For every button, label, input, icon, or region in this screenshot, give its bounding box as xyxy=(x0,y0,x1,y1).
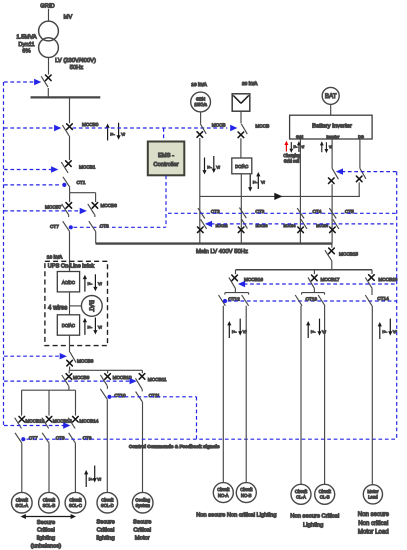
svg-text:BAT: BAT xyxy=(325,93,337,100)
CT9 blade (lighting) xyxy=(69,433,76,443)
svg-text:MCCB11: MCCB11 xyxy=(148,377,167,382)
CT13 right blade xyxy=(324,293,326,295)
power flow arrow xyxy=(274,193,282,200)
wire CT7 to UPS xyxy=(69,232,71,272)
control line to MCCB11 xyxy=(4,380,130,382)
svg-text:50Hz: 50Hz xyxy=(70,65,84,71)
CT7 current transformer xyxy=(63,221,70,231)
svg-text:SCL-B: SCL-B xyxy=(43,503,56,508)
svg-text:Circuit: Circuit xyxy=(69,497,82,502)
converter DC/AC xyxy=(57,315,79,335)
measurement I,Vf at busbar xyxy=(106,124,110,141)
circuit breaker Q0 (incomer) xyxy=(46,75,52,81)
svg-text:Motor: Motor xyxy=(135,535,150,541)
breaker MCCB13 xyxy=(46,416,52,422)
control line to MCCB1 xyxy=(4,169,52,171)
svg-text:Critical: Critical xyxy=(133,528,151,534)
svg-text:6%: 6% xyxy=(22,49,30,55)
svg-text:(unbalance): (unbalance) xyxy=(31,543,62,549)
svg-text:Battery Inverter: Battery Inverter xyxy=(312,123,352,129)
breaker MCCB3 xyxy=(241,219,247,229)
control line MCCB2-5 xyxy=(211,223,397,225)
control line to inverter breakers xyxy=(342,171,397,173)
breaker MCCB6 xyxy=(95,193,97,202)
breaker MCCB9 xyxy=(68,370,70,373)
svg-text:System: System xyxy=(136,503,151,508)
svg-text:I+-: I+- xyxy=(253,180,258,185)
wire PV to breaker xyxy=(240,111,242,123)
measurement I,Vf PV xyxy=(248,175,252,192)
circuit CL-B xyxy=(315,484,335,504)
svg-text:Non critical: Non critical xyxy=(358,520,388,527)
svg-text:Circuit: Circuit xyxy=(217,487,230,492)
wire to circuit NC-A xyxy=(222,306,224,483)
svg-text:Secure: Secure xyxy=(96,520,114,526)
measurement I,Vf motor load xyxy=(378,322,382,339)
circuit SCL-B xyxy=(39,492,60,513)
svg-text:Motor: Motor xyxy=(367,489,379,494)
EMS controller drop from control line xyxy=(163,128,165,141)
svg-text:NC-A: NC-A xyxy=(218,493,229,498)
wire CT1 to split xyxy=(69,187,71,193)
CT14 current transformer xyxy=(365,295,372,306)
control feedback bus bottom xyxy=(27,438,397,440)
svg-text:AC/DC: AC/DC xyxy=(62,280,75,285)
svg-text:vf: vf xyxy=(329,145,332,149)
svg-text:Motor Load: Motor Load xyxy=(358,529,389,536)
svg-text:I+-: I+- xyxy=(110,131,115,136)
circuit SCL-D xyxy=(97,492,118,513)
measurement I,Vf GEN xyxy=(202,158,206,175)
breaker MCCB12 xyxy=(19,416,25,422)
svg-text:SCL-D: SCL-D xyxy=(101,503,114,508)
CT8 blade (lighting) xyxy=(42,433,49,443)
breaker MCCB (GEN) xyxy=(200,124,206,134)
svg-text:15KVa: 15KVa xyxy=(194,102,207,107)
measurement I,Vf non-critical lighting xyxy=(227,321,231,338)
generator GEN 15KVa xyxy=(191,92,211,112)
CT5 current transformer xyxy=(329,208,336,218)
wire CT10 to SCL-D circuit xyxy=(106,399,108,492)
circuit NC-B xyxy=(236,483,256,503)
wire CT9 to circuit SCL-C xyxy=(74,443,76,492)
svg-text:I+-: I+- xyxy=(88,324,93,329)
svg-text:BAT: BAT xyxy=(87,300,94,312)
transformer T1 (2-winding) xyxy=(39,21,59,41)
wire CT11 to cooling system xyxy=(142,402,144,492)
svg-text:MCCB3: MCCB3 xyxy=(256,224,268,228)
CT13 left blade xyxy=(301,293,303,295)
circuit CL-A xyxy=(291,484,311,504)
CT10 current transformer xyxy=(100,389,107,399)
svg-text:DC/AC: DC/AC xyxy=(235,164,248,169)
svg-text:GRID: GRID xyxy=(40,3,55,9)
svg-text:GEN: GEN xyxy=(196,97,205,102)
svg-text:MCCB17: MCCB17 xyxy=(321,277,340,282)
NC branch bus xyxy=(225,292,249,294)
circuit SCL-A xyxy=(11,492,32,513)
svg-text:I+-: I+- xyxy=(382,329,387,334)
svg-text:Secure: Secure xyxy=(37,520,55,526)
unbalance arrow xyxy=(25,516,72,518)
svg-text:Grid: Grid xyxy=(296,135,303,139)
svg-text:Non secure Non critical Lighti: Non secure Non critical Lighting xyxy=(196,513,276,519)
wire CT6 to main bus xyxy=(95,232,97,244)
battery inverter unit xyxy=(290,115,373,139)
wire CT7 to circuit SCL-A xyxy=(21,443,23,492)
wire BAT to battery inverter xyxy=(330,104,332,115)
svg-text:Controller: Controller xyxy=(153,162,178,168)
EMS controller xyxy=(148,142,185,176)
svg-text:Circuit: Circuit xyxy=(16,497,29,502)
svg-text:I+-: I+- xyxy=(89,476,94,481)
wire to motor load xyxy=(371,306,373,485)
svg-text:MCCB10: MCCB10 xyxy=(113,375,132,380)
svg-text:Main LV 400V 50Hz: Main LV 400V 50Hz xyxy=(196,249,248,255)
breaker MCCB (PV) xyxy=(241,124,247,134)
breaker MCCB17 xyxy=(313,270,315,274)
control line to MCCB8 xyxy=(4,355,61,357)
svg-text:UPS On-Line brick: UPS On-Line brick xyxy=(48,264,95,270)
control line to CT1 xyxy=(4,184,61,186)
control line through MCCB7 to MCCB6 xyxy=(4,210,80,212)
breaker MCCB18 xyxy=(371,270,373,274)
measurement I,Vf secure lighting xyxy=(84,470,88,487)
svg-text:Dyn11: Dyn11 xyxy=(18,42,34,48)
svg-text:MCCB14: MCCB14 xyxy=(79,418,98,423)
breaker MCCB15 xyxy=(331,244,333,248)
measurement I,Vf critical lighting xyxy=(306,321,310,338)
svg-text:DC/AC: DC/AC xyxy=(62,323,75,328)
control line to MCCB16 xyxy=(244,283,397,285)
measurement I,Vf at DC/AC xyxy=(83,318,87,335)
control line CT12-CT14 xyxy=(228,300,397,302)
wire split bus xyxy=(70,192,96,194)
CL branch bus xyxy=(302,292,325,294)
svg-text:10 kVA: 10 kVA xyxy=(191,82,207,88)
svg-text:Load: Load xyxy=(368,495,378,500)
svg-text:I+-: I+- xyxy=(311,329,316,334)
breaker MCCB16 xyxy=(235,270,237,274)
breaker MCCB11 xyxy=(141,370,143,373)
svg-text:I+-: I+- xyxy=(207,164,212,169)
svg-text:Lighting: Lighting xyxy=(303,522,323,528)
wire drop SCL-C xyxy=(75,390,77,415)
svg-text:1.5MVA: 1.5MVA xyxy=(16,35,36,41)
breaker MCCB8 xyxy=(70,352,76,362)
svg-text:I+-: I+- xyxy=(232,329,237,334)
control line to incomer xyxy=(4,81,35,83)
control rail right xyxy=(396,172,398,440)
svg-text:MCCB12: MCCB12 xyxy=(25,418,44,423)
CT6 current transformer xyxy=(89,221,96,231)
battery BAT (UPS) xyxy=(81,296,102,317)
svg-text:Non secure: Non secure xyxy=(358,511,390,518)
cooling system load xyxy=(132,492,153,513)
circuit NC-A xyxy=(213,483,233,503)
non secure bus xyxy=(236,269,373,271)
wire MCCB8 to secure bus xyxy=(69,367,71,371)
measurement I,Vf at AC/DC xyxy=(83,275,87,292)
svg-text:MCCB16: MCCB16 xyxy=(244,277,263,282)
svg-text:CT13: CT13 xyxy=(306,296,318,301)
breaker MCCB4 xyxy=(301,219,307,229)
svg-text:MCCB2: MCCB2 xyxy=(216,224,228,228)
svg-text:Circuit: Circuit xyxy=(240,487,253,492)
control line CT7 to EMS drop xyxy=(74,226,166,228)
svg-text:Secure: Secure xyxy=(133,520,151,526)
svg-text:4 wires: 4 wires xyxy=(48,304,67,311)
motor load xyxy=(363,485,382,504)
CT4 current transformer xyxy=(297,208,304,218)
wire inverter terminal to breaker xyxy=(331,139,333,168)
wire to circuit NC-B xyxy=(245,306,247,483)
LV busbar xyxy=(31,96,101,98)
svg-text:MV: MV xyxy=(64,14,73,20)
wire grid to transformer xyxy=(48,9,50,21)
wire inverter breaker to CT5 xyxy=(331,184,333,243)
svg-text:MCCB: MCCB xyxy=(255,124,269,129)
svg-text:CL-A: CL-A xyxy=(296,495,306,500)
svg-text:MCCB7: MCCB7 xyxy=(45,204,62,209)
CT11 current transformer xyxy=(136,392,143,402)
svg-text:MCCB8: MCCB8 xyxy=(77,359,94,364)
wire DG terminal to breaker xyxy=(359,139,361,168)
CT1 current transformer xyxy=(63,177,70,187)
svg-text:lighting: lighting xyxy=(96,535,114,541)
wire drop SCL-A xyxy=(21,390,23,415)
CT12 label and dot xyxy=(223,299,227,303)
svg-text:SCL-A: SCL-A xyxy=(15,503,28,508)
svg-text:MCCB6: MCCB6 xyxy=(101,203,118,208)
CT3 current transformer xyxy=(239,208,246,218)
CT12 left blade xyxy=(224,293,226,295)
inverter DC/AC (PV) xyxy=(232,158,252,174)
CT7 blade (lighting) xyxy=(15,433,22,443)
svg-text:Inverter: Inverter xyxy=(326,135,340,139)
battery BAT xyxy=(322,87,339,104)
svg-text:vf: vf xyxy=(302,145,305,149)
breaker MCCB2 xyxy=(201,219,207,229)
svg-text:I+-: I+- xyxy=(294,145,298,149)
svg-text:MCCB5: MCCB5 xyxy=(316,224,328,228)
collection line xyxy=(200,195,360,197)
svg-text:CT7: CT7 xyxy=(50,224,59,229)
PV array symbol xyxy=(232,94,250,111)
breaker MCCB0 xyxy=(67,124,73,130)
wire drop SCL-B xyxy=(48,390,50,415)
svg-text:Control Commands & Feedback si: Control Commands & Feedback signals xyxy=(129,444,220,450)
wire DC/AC to MCCB8 xyxy=(69,335,71,352)
control line to MCCB0 and on to DG/PV breakers xyxy=(4,127,55,129)
svg-text:I+-: I+- xyxy=(88,281,93,286)
svg-text:Non secure Critical: Non secure Critical xyxy=(290,513,339,519)
wire AC/DC to DC/AC xyxy=(69,292,71,315)
svg-text:MCCB0: MCCB0 xyxy=(82,122,99,127)
svg-text:Circuit: Circuit xyxy=(319,489,332,494)
svg-text:LV (230V/400V): LV (230V/400V) xyxy=(55,58,96,64)
svg-text:NC-B: NC-B xyxy=(241,493,252,498)
wire GEN to breaker xyxy=(200,112,202,124)
svg-text:Critical: Critical xyxy=(97,528,115,534)
svg-text:Charging: Charging xyxy=(283,153,301,158)
breaker MCCB5 xyxy=(333,219,339,229)
wire PV inverter to collection line xyxy=(240,174,242,244)
wire Grid terminal to CT4 xyxy=(299,139,301,244)
control rail left xyxy=(3,82,5,426)
svg-text:MCCB1: MCCB1 xyxy=(79,164,96,169)
control line to MCCB12-14 xyxy=(4,425,64,427)
svg-text:Circuit: Circuit xyxy=(295,489,308,494)
measurement charging grid sell xyxy=(284,141,288,152)
svg-text:SCL-C: SCL-C xyxy=(69,503,82,508)
svg-text:MCCB18: MCCB18 xyxy=(378,277,397,282)
circuit SCL-C xyxy=(65,492,86,513)
svg-text:CT6: CT6 xyxy=(100,224,109,229)
wire DG breaker to collection line xyxy=(358,182,360,196)
wire MCCB0 to MCCB1 xyxy=(69,136,71,160)
EMS controller output line xyxy=(165,176,167,228)
svg-text:Circuit: Circuit xyxy=(43,497,56,502)
breaker MCCB7 xyxy=(69,193,71,202)
wire to BAT xyxy=(70,305,82,307)
wire to circuit CL-B xyxy=(324,306,326,485)
breaker at DG terminal xyxy=(360,168,366,179)
svg-text:CL-B: CL-B xyxy=(320,495,330,500)
wire PV breaker to inverter xyxy=(240,138,242,158)
svg-text:CT14: CT14 xyxy=(377,296,389,301)
wire CT8 to circuit SCL-B xyxy=(48,443,50,492)
svg-text:EMS -: EMS - xyxy=(158,153,174,159)
control line CT2-CT5 xyxy=(168,212,397,214)
svg-text:Cooling: Cooling xyxy=(135,497,150,502)
wire to circuit CL-A xyxy=(300,306,302,485)
svg-text:MCCB: MCCB xyxy=(212,123,226,128)
svg-text:lighting: lighting xyxy=(37,536,55,542)
main LV bus xyxy=(96,242,332,244)
breaker at inverter output xyxy=(332,168,338,179)
svg-text:CT1: CT1 xyxy=(77,180,86,185)
UPS On-Line brick enclosure xyxy=(45,261,108,345)
breaker MCCB10 xyxy=(107,370,109,373)
secure lighting bus xyxy=(22,389,76,391)
breaker MCCB1 xyxy=(66,161,72,167)
svg-text:DG: DG xyxy=(358,135,364,139)
svg-text:MCCB4: MCCB4 xyxy=(284,224,296,228)
svg-text:16 kVA: 16 kVA xyxy=(47,254,63,260)
svg-text:Circuit: Circuit xyxy=(101,497,114,502)
svg-text:MCCB9: MCCB9 xyxy=(73,375,90,380)
CT2 current transformer xyxy=(198,208,205,218)
measurement I,Vf inverter terminal xyxy=(320,141,324,152)
svg-text:MCCB15: MCCB15 xyxy=(339,252,358,257)
secure distribution bus xyxy=(70,369,143,371)
svg-text:28 kVA: 28 kVA xyxy=(242,81,258,87)
converter AC/DC xyxy=(57,272,79,292)
wire busbar to MCCB0 xyxy=(69,97,71,123)
svg-text:Grid sell: Grid sell xyxy=(284,159,299,164)
wire GEN breaker to collection line xyxy=(199,138,201,244)
control line CT10-CT11 to feedback bus xyxy=(112,396,197,398)
CT12 right blade xyxy=(248,293,250,295)
wire transformer to incomer breaker xyxy=(48,57,50,74)
breaker MCCB14 xyxy=(73,416,79,422)
svg-text:Critical: Critical xyxy=(37,528,55,534)
